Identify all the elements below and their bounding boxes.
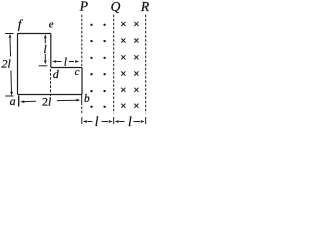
svg-text:P: P [79,0,88,14]
dimension l (horizontal d-c) [52,60,79,63]
wire: loop bottom edge b-a [18,94,83,96]
svg-text:e: e [49,19,54,31]
field dots region P [90,24,106,108]
field crosses region Q [121,22,138,108]
extension tick below b [81,95,83,106]
dimension l (region P width) [83,120,113,123]
dimension l (region Q width) [115,120,145,123]
dimension 2l (bottom horizontal) [19,95,82,107]
wire: loop left edge a-f [17,34,19,95]
dimension 2l (left vertical) [5,34,14,97]
wire: loop top edge f-e [18,33,51,35]
svg-text:l: l [95,114,99,129]
physics figure: stepped conducting loop abcdef with magnetic field regions P, Q, R [0,0,151,130]
wire: loop step edge d-c [51,67,82,69]
dimension l (vertical e-d) [39,34,48,66]
svg-text:R: R [140,0,150,14]
svg-text:b: b [84,93,90,105]
region boundary P (dashed) [81,15,83,125]
wire: loop right lower edge c-b [81,68,83,95]
svg-text:c: c [75,66,80,78]
region boundary R (dashed) [145,15,147,125]
svg-text:2l: 2l [2,57,12,71]
wire: loop right upper edge e-d [50,34,52,68]
extension tick below a [18,96,20,107]
svg-text:Q: Q [111,0,121,14]
svg-text:d: d [53,67,60,81]
region boundary Q (dashed) [113,15,115,125]
svg-text:2l: 2l [42,95,52,109]
svg-text:l: l [128,114,132,129]
svg-text:a: a [10,94,16,108]
dashed guide below d [50,69,52,96]
